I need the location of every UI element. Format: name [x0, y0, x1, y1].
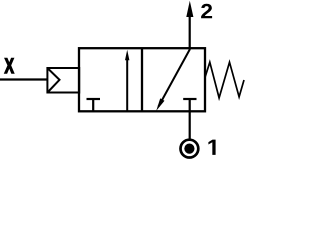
- left square blocked port T: [87, 99, 101, 111]
- port 1 circle: [181, 140, 199, 158]
- wire pilot line X: [0, 78, 47, 80]
- port 1 dot: [184, 144, 194, 154]
- valve body: [79, 48, 205, 111]
- label X: [5, 58, 14, 73]
- left square flow arrow: [125, 50, 129, 111]
- label 2: [201, 4, 212, 19]
- right square blocked port T: [183, 99, 196, 111]
- pilot actuator box: [47, 68, 79, 93]
- wire port 2: [189, 14, 191, 48]
- label 1: [208, 140, 215, 155]
- wire port 1: [189, 111, 191, 140]
- arrowhead port 2: [186, 1, 193, 17]
- spring: [205, 62, 244, 98]
- right square diagonal flow arrow: [156, 49, 190, 111]
- pilot actuator triangle: [48, 69, 59, 92]
- valve body divider: [141, 48, 143, 111]
